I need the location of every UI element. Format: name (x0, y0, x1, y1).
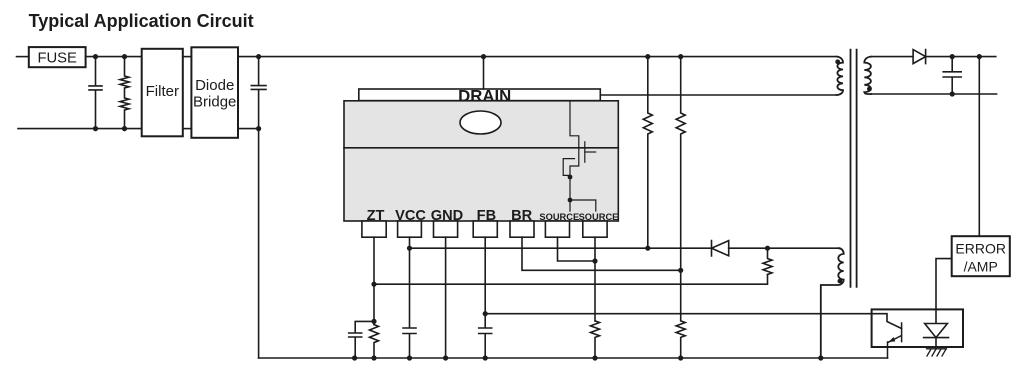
resistor R source (591, 321, 600, 358)
capacitor bulk C bulk (251, 57, 266, 129)
wire secondary top (871, 56, 913, 58)
wire ground bus (259, 357, 888, 359)
IC mounting hole ellipse (460, 111, 501, 134)
wire output plus (926, 56, 996, 58)
capacitor C zt (349, 321, 374, 358)
pin box FB (473, 221, 497, 237)
svg-text:SOURCE: SOURCE (579, 212, 619, 222)
mosfet Q internal (563, 101, 596, 211)
svg-text:FB: FB (477, 208, 496, 224)
aux phase dot (838, 279, 843, 284)
wire ZT sense line (374, 275, 768, 285)
svg-text:GND: GND (431, 208, 463, 224)
wire bridge negative out (238, 128, 259, 130)
resistor R sense lower (763, 248, 772, 274)
svg-text:Typical Application Circuit: Typical Application Circuit (29, 11, 254, 31)
pin box SOURCE2 (583, 221, 607, 237)
resistor R startup1 column (643, 57, 652, 249)
pin box ZT (362, 221, 386, 237)
wire error amp feed (978, 57, 980, 237)
pin box VCC (398, 221, 422, 237)
svg-text:Bridge: Bridge (193, 93, 236, 110)
diode bridge block (191, 47, 238, 138)
junction dots misc (352, 54, 823, 361)
wire FB to opto collector (485, 314, 901, 329)
wire filter to bridge top (183, 56, 192, 58)
node mosfet source junction 2 (568, 198, 573, 203)
diode D out (913, 50, 926, 64)
transformer aux winding (821, 248, 844, 358)
node dots bulk cap (256, 54, 261, 131)
IC U1 body (344, 101, 618, 221)
wire secondary bottom / output minus (871, 93, 997, 95)
capacitor C out (943, 57, 961, 94)
resistor R startup2 column (676, 57, 685, 358)
wire drain to primary (600, 94, 836, 96)
drain tab (359, 89, 601, 101)
svg-text:DRAIN: DRAIN (458, 87, 511, 106)
svg-text:/AMP: /AMP (964, 258, 998, 274)
wire primary ground vertical (258, 129, 260, 358)
filter block (142, 49, 183, 137)
svg-text:ZT: ZT (367, 208, 385, 224)
wire fuse to filter (86, 56, 142, 58)
pin box GND (434, 221, 458, 237)
resistor R discharge (two in series) (120, 57, 129, 129)
diode D vcc (712, 241, 729, 257)
transformer core (851, 50, 857, 287)
svg-text:Filter: Filter (146, 83, 179, 100)
wire VCC supply line (410, 247, 712, 249)
svg-text:BR: BR (511, 208, 533, 224)
svg-text:SOURCE: SOURCE (539, 212, 579, 222)
pin box SOURCE1 (545, 221, 569, 237)
resistor R zt (370, 325, 379, 358)
error amp block (952, 236, 1010, 276)
ground chassis (927, 349, 947, 356)
emitter arrow (889, 337, 896, 342)
IC internal divider (344, 147, 618, 149)
wire DC+ bus (238, 56, 837, 58)
node drain feed junction on DC bus (481, 54, 486, 59)
svg-text:FUSE: FUSE (37, 50, 77, 66)
wire SOURCE2 pin net (594, 237, 596, 321)
node junction dots fuse output (93, 54, 127, 131)
wire ZT pin net (373, 237, 375, 324)
transformer secondary (864, 57, 871, 94)
node mosfet source junction 1 (568, 175, 573, 180)
fuse F1 (29, 47, 86, 67)
secondary phase dot (867, 87, 872, 92)
wire BR pin net (522, 237, 681, 270)
wire filter to bridge bottom (183, 128, 192, 130)
capacitor CX1 (89, 57, 102, 129)
opto phototransistor (888, 323, 902, 358)
pin labels (367, 208, 533, 224)
primary phase dot (835, 59, 840, 64)
wire error amp to opto led (936, 259, 952, 324)
wire diode to aux (729, 247, 839, 249)
wire drain feed from DC bus (483, 57, 485, 89)
wire SOURCE1 pin net (558, 237, 596, 261)
opto LED cathode bar and lead (924, 338, 949, 349)
wire FB pin net (479, 237, 492, 358)
opto LED triangle (925, 324, 948, 338)
node dots output (950, 54, 982, 97)
svg-text:VCC: VCC (395, 208, 426, 224)
pin box BR (510, 221, 534, 237)
wire AC line N (18, 128, 142, 130)
wire GND pin net (445, 237, 447, 358)
wire VCC pin net (403, 237, 416, 358)
svg-text:Diode: Diode (195, 77, 234, 94)
transformer T1 primary (837, 57, 844, 95)
wire AC line L input stub (17, 56, 29, 58)
svg-text:ERROR: ERROR (955, 240, 1006, 256)
optocoupler U2 box (872, 309, 963, 347)
